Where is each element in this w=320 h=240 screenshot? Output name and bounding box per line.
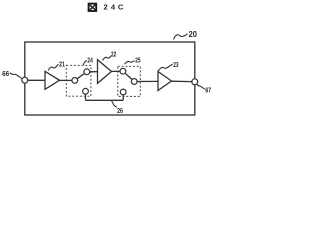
wire 23 to output terminal 67 [172,80,192,82]
svg-text:24: 24 [87,55,92,64]
switch 24 common contact [72,78,78,84]
svg-text:C: C [118,2,124,11]
svg-text:21: 21 [59,59,65,68]
buffer amplifier 23 [158,72,172,91]
leader for label 20 [174,34,188,40]
buffer amplifier 21 [45,71,60,89]
switch 24 blade [77,74,84,79]
bypass stem to switch 25 lower contact [122,95,124,100]
switch 24 lower throw contact [83,88,89,94]
svg-text:67: 67 [205,86,211,95]
wire box24 to amplifier 22 [90,71,98,73]
wire box 25 to buffer 23 [137,80,158,82]
leader for label 25 [125,60,135,64]
bypass wire 26 [86,99,124,101]
svg-text:25: 25 [135,56,140,65]
svg-text:4: 4 [111,2,116,11]
switch 24 upper throw contact [84,69,90,75]
leader for label 21 [48,64,58,70]
leader for label 24 [83,60,87,65]
wire 66 to buffer 21 [28,79,45,81]
leader for label 26 [112,101,117,107]
switch box 25 (dashed) [118,66,141,96]
bypass stem from switch 24 lower contact [85,94,87,100]
amplifier 22 [98,60,112,84]
input terminal 66 [22,77,28,83]
svg-text:66: 66 [2,69,9,78]
svg-text:20: 20 [189,30,198,39]
leader for label 67 [197,84,205,89]
switch box 24 (dashed) [66,65,91,96]
main block box 20 [25,42,195,115]
leader for label 23 [158,64,172,71]
switch 25 blade [125,73,132,79]
wire 22 to switch box 25 [112,70,121,72]
svg-text:23: 23 [173,60,178,69]
leader for label 22 [103,56,111,61]
svg-text:2: 2 [104,2,108,11]
leader for label 66 [10,73,22,79]
wire 21 to switch box 24 [60,79,73,81]
output terminal 67 [192,79,198,85]
figure title glyph ZU (boxed kanji) [89,4,97,11]
switch 25 upper throw contact [120,68,126,74]
svg-text:26: 26 [117,106,123,115]
switch 25 common contact [131,79,137,85]
switch 25 lower throw contact [120,89,126,95]
svg-text:22: 22 [111,50,116,59]
